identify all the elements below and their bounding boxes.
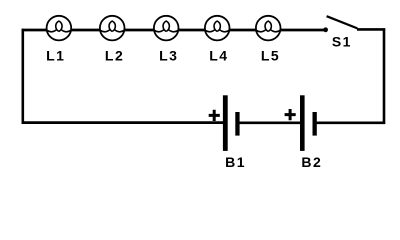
wire left vertical	[21, 29, 24, 124]
battery B1 long plate (+)	[223, 95, 228, 151]
svg-text:L1: L1	[46, 47, 65, 63]
battery B2 short plate (-)	[313, 112, 317, 136]
battery B1 short plate (-)	[235, 112, 239, 136]
battery B2 long plate (+)	[300, 95, 305, 151]
svg-text:L5: L5	[261, 47, 280, 63]
switch S1 blade	[327, 16, 358, 28]
battery B2 plus sign	[285, 109, 296, 120]
wire bottom left segment	[22, 121, 224, 124]
svg-text:L2: L2	[105, 47, 124, 63]
lamp L3	[153, 16, 179, 41]
lamp L5	[255, 16, 281, 41]
switch S1 contact dot	[323, 27, 328, 32]
svg-text:B2: B2	[301, 154, 322, 170]
svg-text:S1: S1	[332, 33, 352, 49]
svg-text:L4: L4	[209, 47, 228, 63]
lamp L1	[46, 16, 72, 41]
lamp L4	[204, 16, 230, 41]
svg-text:L3: L3	[159, 47, 178, 63]
lamp L2	[99, 16, 125, 41]
battery B1 plus sign	[209, 110, 220, 121]
wire top right segment (switch to right corner)	[357, 28, 385, 31]
wire top horizontal (left loop to switch)	[22, 29, 324, 32]
wire bottom middle segment (B1 to B2)	[240, 121, 301, 124]
svg-text:B1: B1	[225, 154, 246, 170]
wire right vertical	[383, 29, 386, 124]
wire bottom right segment (B2 to right corner)	[317, 121, 386, 124]
